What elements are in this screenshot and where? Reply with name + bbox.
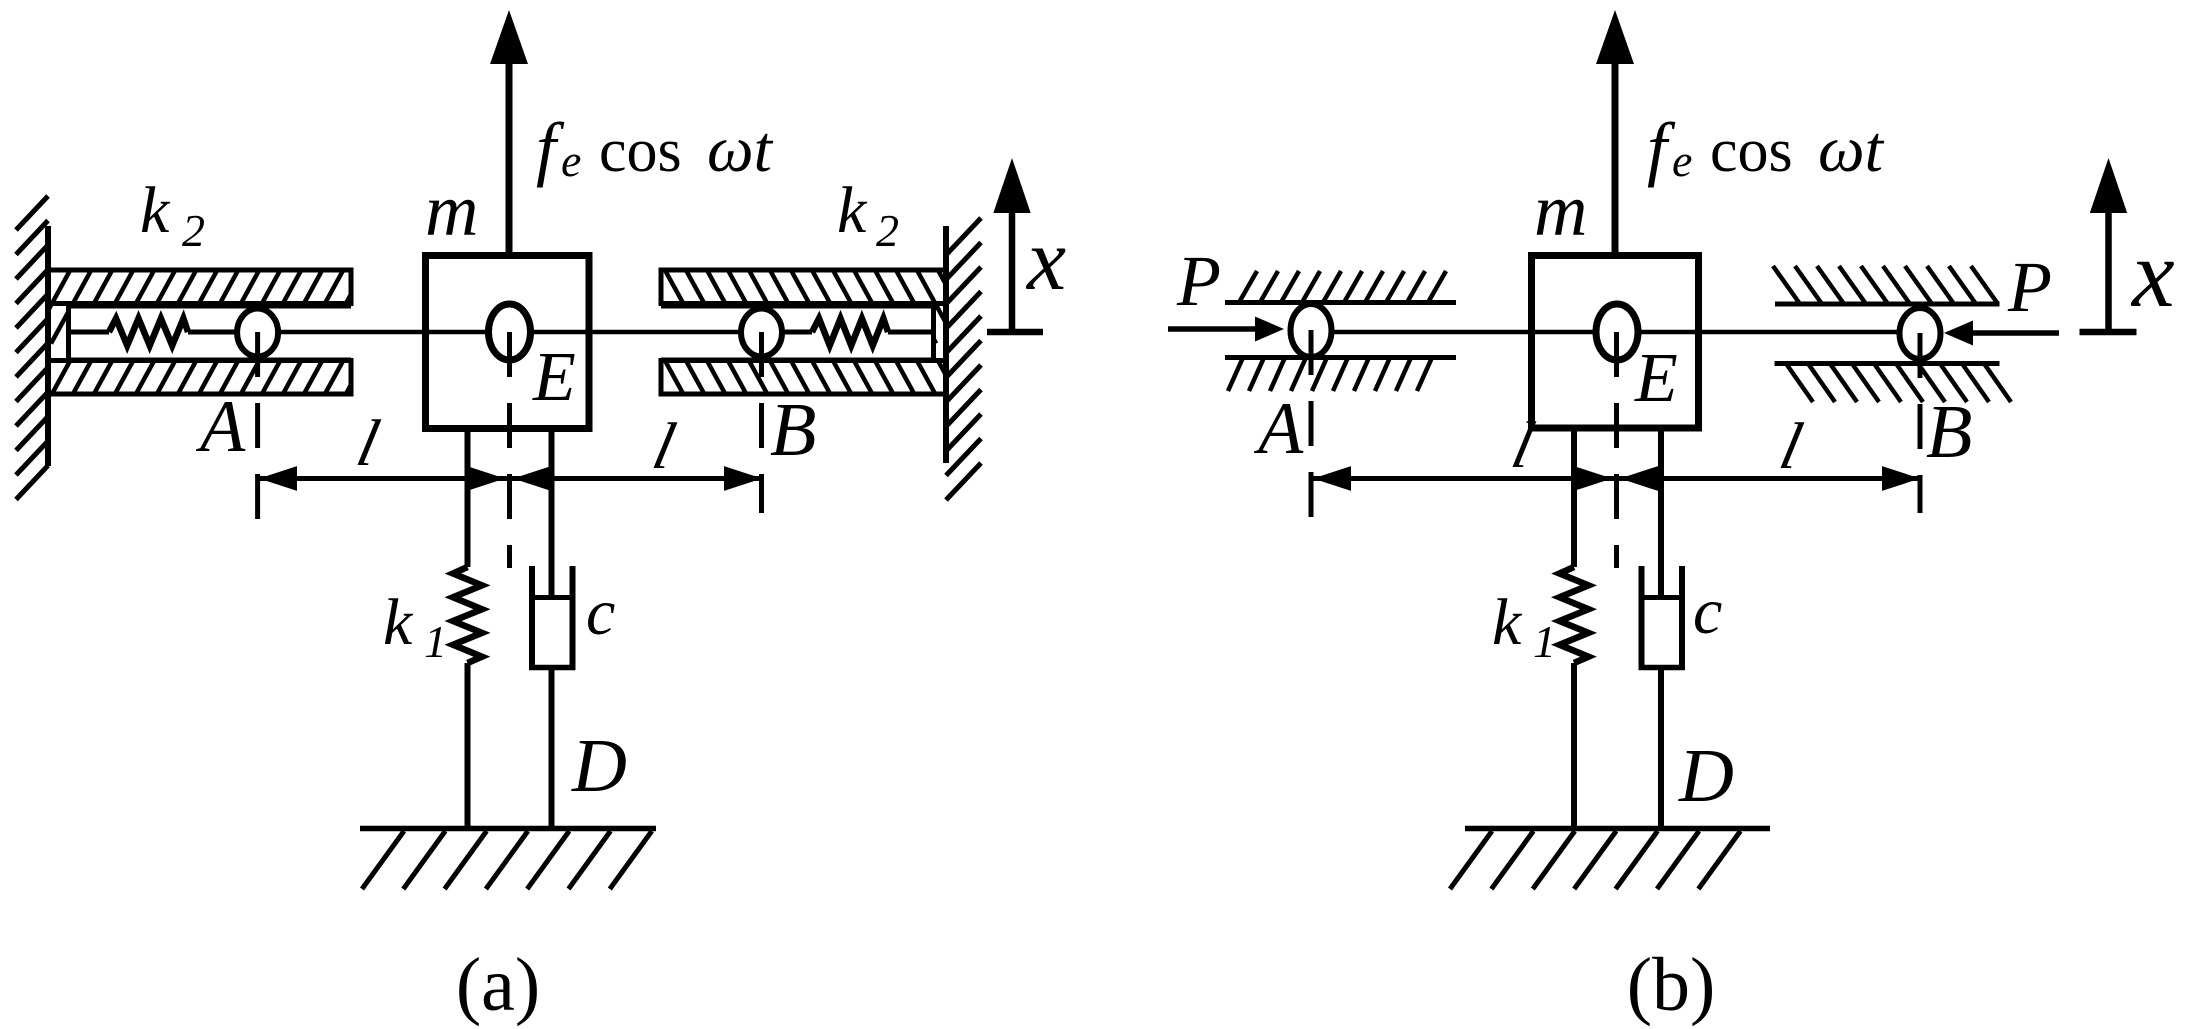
dashed centerline E (b) [1614,332,1619,568]
label l right (b) [1774,410,1809,483]
roller B (b) [1900,308,1941,359]
force P arrow left (b) [1168,317,1284,342]
x reference axis (a) [987,158,1043,332]
ground (a) [360,829,656,890]
label l right (a) [647,410,682,483]
label k1 (b) [1492,586,1556,667]
svg-text:1: 1 [424,616,447,667]
svg-text:E: E [1634,340,1678,417]
spring k2 right (a) [784,319,934,346]
centroid circle E (a) [489,304,531,360]
link rod A to mass (a) [236,330,430,335]
svg-text:2: 2 [182,205,205,256]
svg-text:D: D [1678,734,1734,818]
svg-text:P: P [1176,241,1221,321]
force arrow fe cos wt (b) [1596,10,1634,255]
lower guide right (b) [1775,364,2012,403]
svg-text:k: k [383,586,414,659]
svg-text:ωt: ωt [1818,113,1885,186]
label c (b) [1693,575,1722,648]
svg-text:x: x [2130,220,2175,327]
label l left (a) [351,407,386,480]
caption (b) [1627,943,1716,1027]
label E (b) [1634,340,1678,417]
svg-text:k: k [1492,586,1523,659]
svg-text:P: P [2007,247,2052,327]
label fe cos wt (a) [536,108,774,188]
damper c (b) [1639,428,1686,831]
svg-text:B: B [1926,390,1972,474]
label c (a) [586,576,615,649]
dimension line l-l (a) [259,466,762,491]
label k2 right (a) [837,174,899,256]
fixed wall right (a) [946,218,981,500]
spring k2 left (a) [69,319,237,346]
svg-text:e: e [561,135,581,186]
label P left (b) [1176,241,1221,321]
spring k1 (a) [453,429,482,832]
guide slot outline left (a) [69,304,352,363]
guide channel top bar left (a) [0,230,449,344]
label E (a) [532,339,576,416]
svg-text:k: k [140,174,171,247]
roller A (a) [237,309,278,357]
label m (a) [425,170,478,252]
label A (b) [1253,388,1304,470]
svg-text:k: k [837,174,868,247]
dashed centerline A (a) [255,332,260,520]
svg-text:e: e [1672,135,1692,186]
upper guide right (b) [1773,266,2000,304]
label B (a) [770,388,816,472]
guide channel bottom bar left (a) [0,321,449,435]
label m (b) [1534,170,1587,252]
svg-text:m: m [1534,170,1587,252]
link rod mass to B (a) [585,330,740,335]
svg-text:D: D [571,724,627,808]
svg-text:m: m [425,170,478,252]
roller B (a) [741,309,782,357]
label D (a) [571,724,627,808]
centerline through mass (b) [1532,330,1699,335]
svg-text:1: 1 [1533,616,1556,667]
link rod mass to B (b) [1695,330,1899,335]
fixed wall left (a) [16,196,48,500]
dashed centerline B (b) [1918,333,1923,513]
upper guide left (b) [1225,271,1456,303]
label l left (b) [1506,409,1541,482]
force arrow fe cos wt (a) [490,10,528,255]
svg-text:(a): (a) [456,943,540,1027]
svg-text:2: 2 [876,205,899,256]
label k1 (a) [383,586,447,667]
link rod A to mass (b) [1332,330,1536,335]
svg-text:x: x [1025,212,1066,309]
x reference axis (b) [2080,158,2137,332]
lower guide left (b) [1225,358,1456,392]
guide channel top bar right (a) [601,230,1041,344]
ground (b) [1450,829,1770,890]
label k2 left (a) [140,174,205,256]
mass block m (b) [1532,256,1699,429]
caption (a) [456,943,540,1027]
svg-text:E: E [532,339,576,416]
svg-text:c: c [586,576,615,649]
force P arrow right (b) [1944,321,2059,346]
dashed centerline A (b) [1309,330,1314,520]
label P right (b) [2007,247,2052,327]
dashed centerline E (a) [507,332,512,568]
svg-text:A: A [1253,388,1304,470]
dashed centerline B (a) [759,332,764,513]
label x (a) [1025,212,1066,309]
label x (b) [2130,220,2175,327]
svg-text:A: A [195,386,246,468]
guide channel bottom bar right (a) [601,321,1041,435]
centerline through mass (a) [426,330,590,335]
svg-text:c: c [1693,575,1722,648]
dimension line l-l (b) [1313,466,1920,491]
label fe cos wt (b) [1647,108,1885,188]
svg-text:ωt: ωt [707,113,774,186]
svg-text:(b): (b) [1627,943,1716,1027]
roller A (b) [1291,304,1332,357]
mass block m (a) [426,256,590,429]
label A (a) [195,386,246,468]
centroid circle E (b) [1596,304,1638,360]
svg-text:cos: cos [1710,117,1793,185]
label D (b) [1678,734,1734,818]
spring k1 (b) [1560,428,1589,831]
svg-text:cos: cos [599,117,682,185]
guide slot outline right (a) [661,304,934,363]
damper c (a) [529,429,576,832]
label B (b) [1926,390,1972,474]
svg-text:B: B [770,388,816,472]
